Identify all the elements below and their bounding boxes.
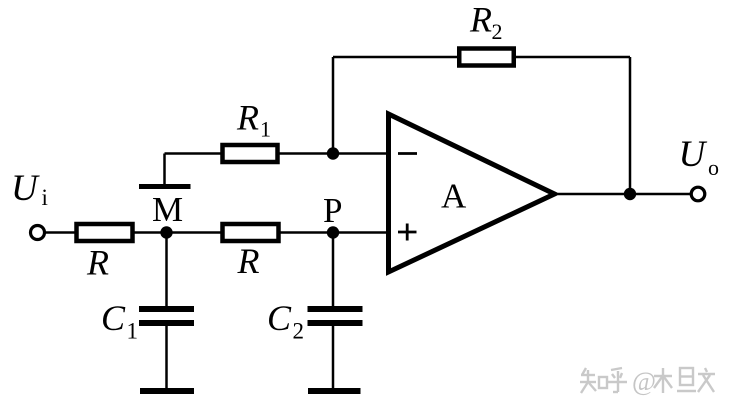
node P dot bbox=[327, 226, 339, 238]
op-amp plus sign bbox=[398, 224, 417, 241]
op-amp minus sign bbox=[398, 152, 417, 155]
wire C1 to ground bbox=[165, 326, 168, 389]
svg-text:C: C bbox=[267, 298, 292, 338]
ground bar under C2 bbox=[308, 388, 361, 394]
svg-text:R: R bbox=[469, 0, 492, 40]
feedback wire top left segment bbox=[333, 56, 459, 59]
capacitor C2 bbox=[308, 309, 363, 323]
output node dot bbox=[624, 188, 636, 200]
label C1 bbox=[101, 298, 138, 344]
wire to R1 left bbox=[165, 152, 223, 155]
label C2 bbox=[267, 298, 304, 344]
wire node P to op-amp plus input bbox=[333, 231, 391, 234]
watermark char 旦 bbox=[677, 368, 696, 391]
label R2 bbox=[469, 0, 503, 44]
ground bar for R1 branch bbox=[139, 184, 191, 189]
wire input terminal to R bbox=[44, 231, 76, 234]
wire node P down to C2 bbox=[332, 233, 335, 308]
feedback wire top right segment bbox=[514, 56, 630, 59]
svg-text:U: U bbox=[679, 134, 708, 175]
wire node N to op-amp minus input bbox=[333, 152, 391, 155]
node M dot bbox=[160, 226, 172, 238]
feedback wire down to output bbox=[629, 57, 632, 194]
svg-text:2: 2 bbox=[293, 319, 305, 344]
watermark 知乎 @木旦文 (hand drawn, grey) bbox=[580, 368, 715, 393]
svg-text:R: R bbox=[237, 241, 260, 281]
svg-text:@: @ bbox=[632, 367, 656, 396]
label Uo bbox=[679, 134, 720, 180]
label R1 bbox=[236, 98, 271, 142]
wire R to node M bbox=[134, 231, 167, 234]
resistor R1 bbox=[223, 145, 278, 162]
wire second R to node P bbox=[280, 231, 334, 234]
svg-text:A: A bbox=[441, 177, 467, 216]
capacitor C1 bbox=[139, 309, 194, 323]
op-amp A triangle bbox=[389, 114, 555, 272]
wire C2 to ground bbox=[332, 326, 335, 389]
label Ui bbox=[11, 168, 48, 210]
svg-text:2: 2 bbox=[492, 19, 503, 44]
svg-text:i: i bbox=[42, 185, 48, 210]
resistor R2 bbox=[459, 49, 514, 66]
output terminal circle Uo bbox=[691, 187, 705, 201]
resistor R (second) bbox=[223, 224, 279, 241]
svg-text:U: U bbox=[11, 168, 40, 209]
svg-text:M: M bbox=[152, 190, 183, 229]
wire ground bar up to R1 row bbox=[163, 154, 166, 185]
svg-text:P: P bbox=[323, 191, 342, 230]
svg-text:1: 1 bbox=[127, 319, 139, 344]
watermark char 文 bbox=[698, 368, 715, 392]
input terminal circle Ui bbox=[31, 226, 45, 240]
wire node N up to feedback bbox=[332, 57, 335, 154]
node N dot (inverting input node) bbox=[327, 147, 339, 159]
watermark char 乎 bbox=[608, 368, 627, 392]
svg-text:1: 1 bbox=[260, 117, 271, 142]
wire node M to second R bbox=[167, 231, 223, 234]
watermark char 木 bbox=[654, 368, 672, 393]
watermark char 知 bbox=[580, 368, 607, 393]
svg-text:C: C bbox=[101, 298, 126, 338]
wire R1 to node N bbox=[279, 152, 334, 155]
output wire bbox=[558, 193, 690, 196]
ground bar under C1 bbox=[140, 388, 194, 394]
svg-text:o: o bbox=[708, 155, 719, 180]
svg-text:R: R bbox=[86, 243, 109, 283]
wire node M down to C1 bbox=[165, 233, 168, 308]
resistor R (input) bbox=[77, 224, 133, 241]
svg-text:R: R bbox=[236, 98, 259, 138]
